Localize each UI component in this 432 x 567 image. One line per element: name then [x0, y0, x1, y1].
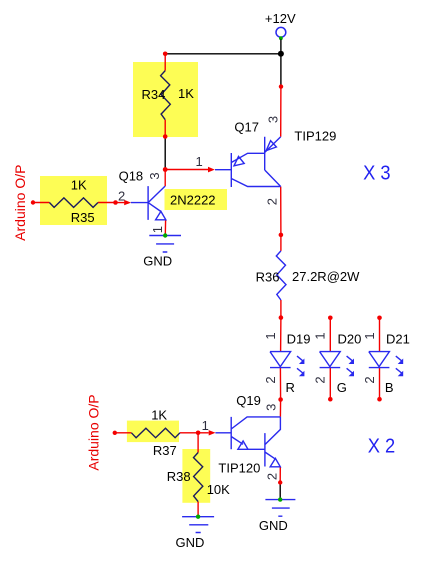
- svg-text:R37: R37: [153, 443, 177, 458]
- svg-text:D20: D20: [338, 332, 362, 347]
- svg-text:1: 1: [313, 332, 328, 339]
- svg-text:1K: 1K: [151, 407, 167, 422]
- svg-text:2: 2: [263, 376, 278, 383]
- svg-text:2: 2: [265, 473, 280, 480]
- svg-text:R34: R34: [142, 87, 166, 102]
- svg-text:Arduino O/P: Arduino O/P: [12, 165, 28, 241]
- svg-text:1: 1: [150, 226, 165, 233]
- svg-text:1: 1: [196, 154, 203, 169]
- svg-text:1K: 1K: [178, 86, 194, 101]
- svg-text:Q17: Q17: [234, 119, 259, 134]
- svg-text:1: 1: [263, 332, 278, 339]
- svg-text:10K: 10K: [207, 482, 230, 497]
- svg-text:D19: D19: [287, 332, 311, 347]
- svg-text:G: G: [337, 380, 347, 395]
- svg-text:27.2R@2W: 27.2R@2W: [292, 269, 360, 284]
- svg-text:1: 1: [362, 332, 377, 339]
- svg-text:D21: D21: [386, 332, 410, 347]
- svg-text:TIP129: TIP129: [294, 129, 336, 144]
- svg-text:2: 2: [118, 188, 125, 203]
- svg-text:3: 3: [266, 116, 281, 123]
- svg-text:TIP120: TIP120: [218, 461, 260, 476]
- svg-text:Arduino O/P: Arduino O/P: [86, 394, 102, 470]
- svg-text:X 3: X 3: [363, 163, 391, 185]
- svg-text:R38: R38: [167, 469, 191, 484]
- svg-text:2: 2: [265, 198, 280, 205]
- svg-text:X 2: X 2: [368, 436, 396, 458]
- svg-text:R35: R35: [71, 210, 95, 225]
- svg-text:1K: 1K: [71, 178, 87, 193]
- svg-text:+12V: +12V: [265, 11, 296, 26]
- svg-text:Q18: Q18: [119, 168, 144, 183]
- svg-text:3: 3: [264, 404, 279, 411]
- svg-text:2: 2: [313, 376, 328, 383]
- svg-text:Q19: Q19: [236, 393, 261, 408]
- svg-text:GND: GND: [143, 254, 172, 269]
- svg-text:GND: GND: [176, 535, 205, 550]
- svg-text:R: R: [286, 380, 295, 395]
- svg-text:2: 2: [362, 376, 377, 383]
- svg-text:3: 3: [147, 172, 162, 179]
- svg-text:2N2222: 2N2222: [170, 192, 216, 207]
- svg-text:R36: R36: [256, 269, 280, 284]
- svg-text:B: B: [385, 380, 394, 395]
- svg-text:1: 1: [202, 418, 209, 433]
- svg-text:GND: GND: [259, 518, 288, 533]
